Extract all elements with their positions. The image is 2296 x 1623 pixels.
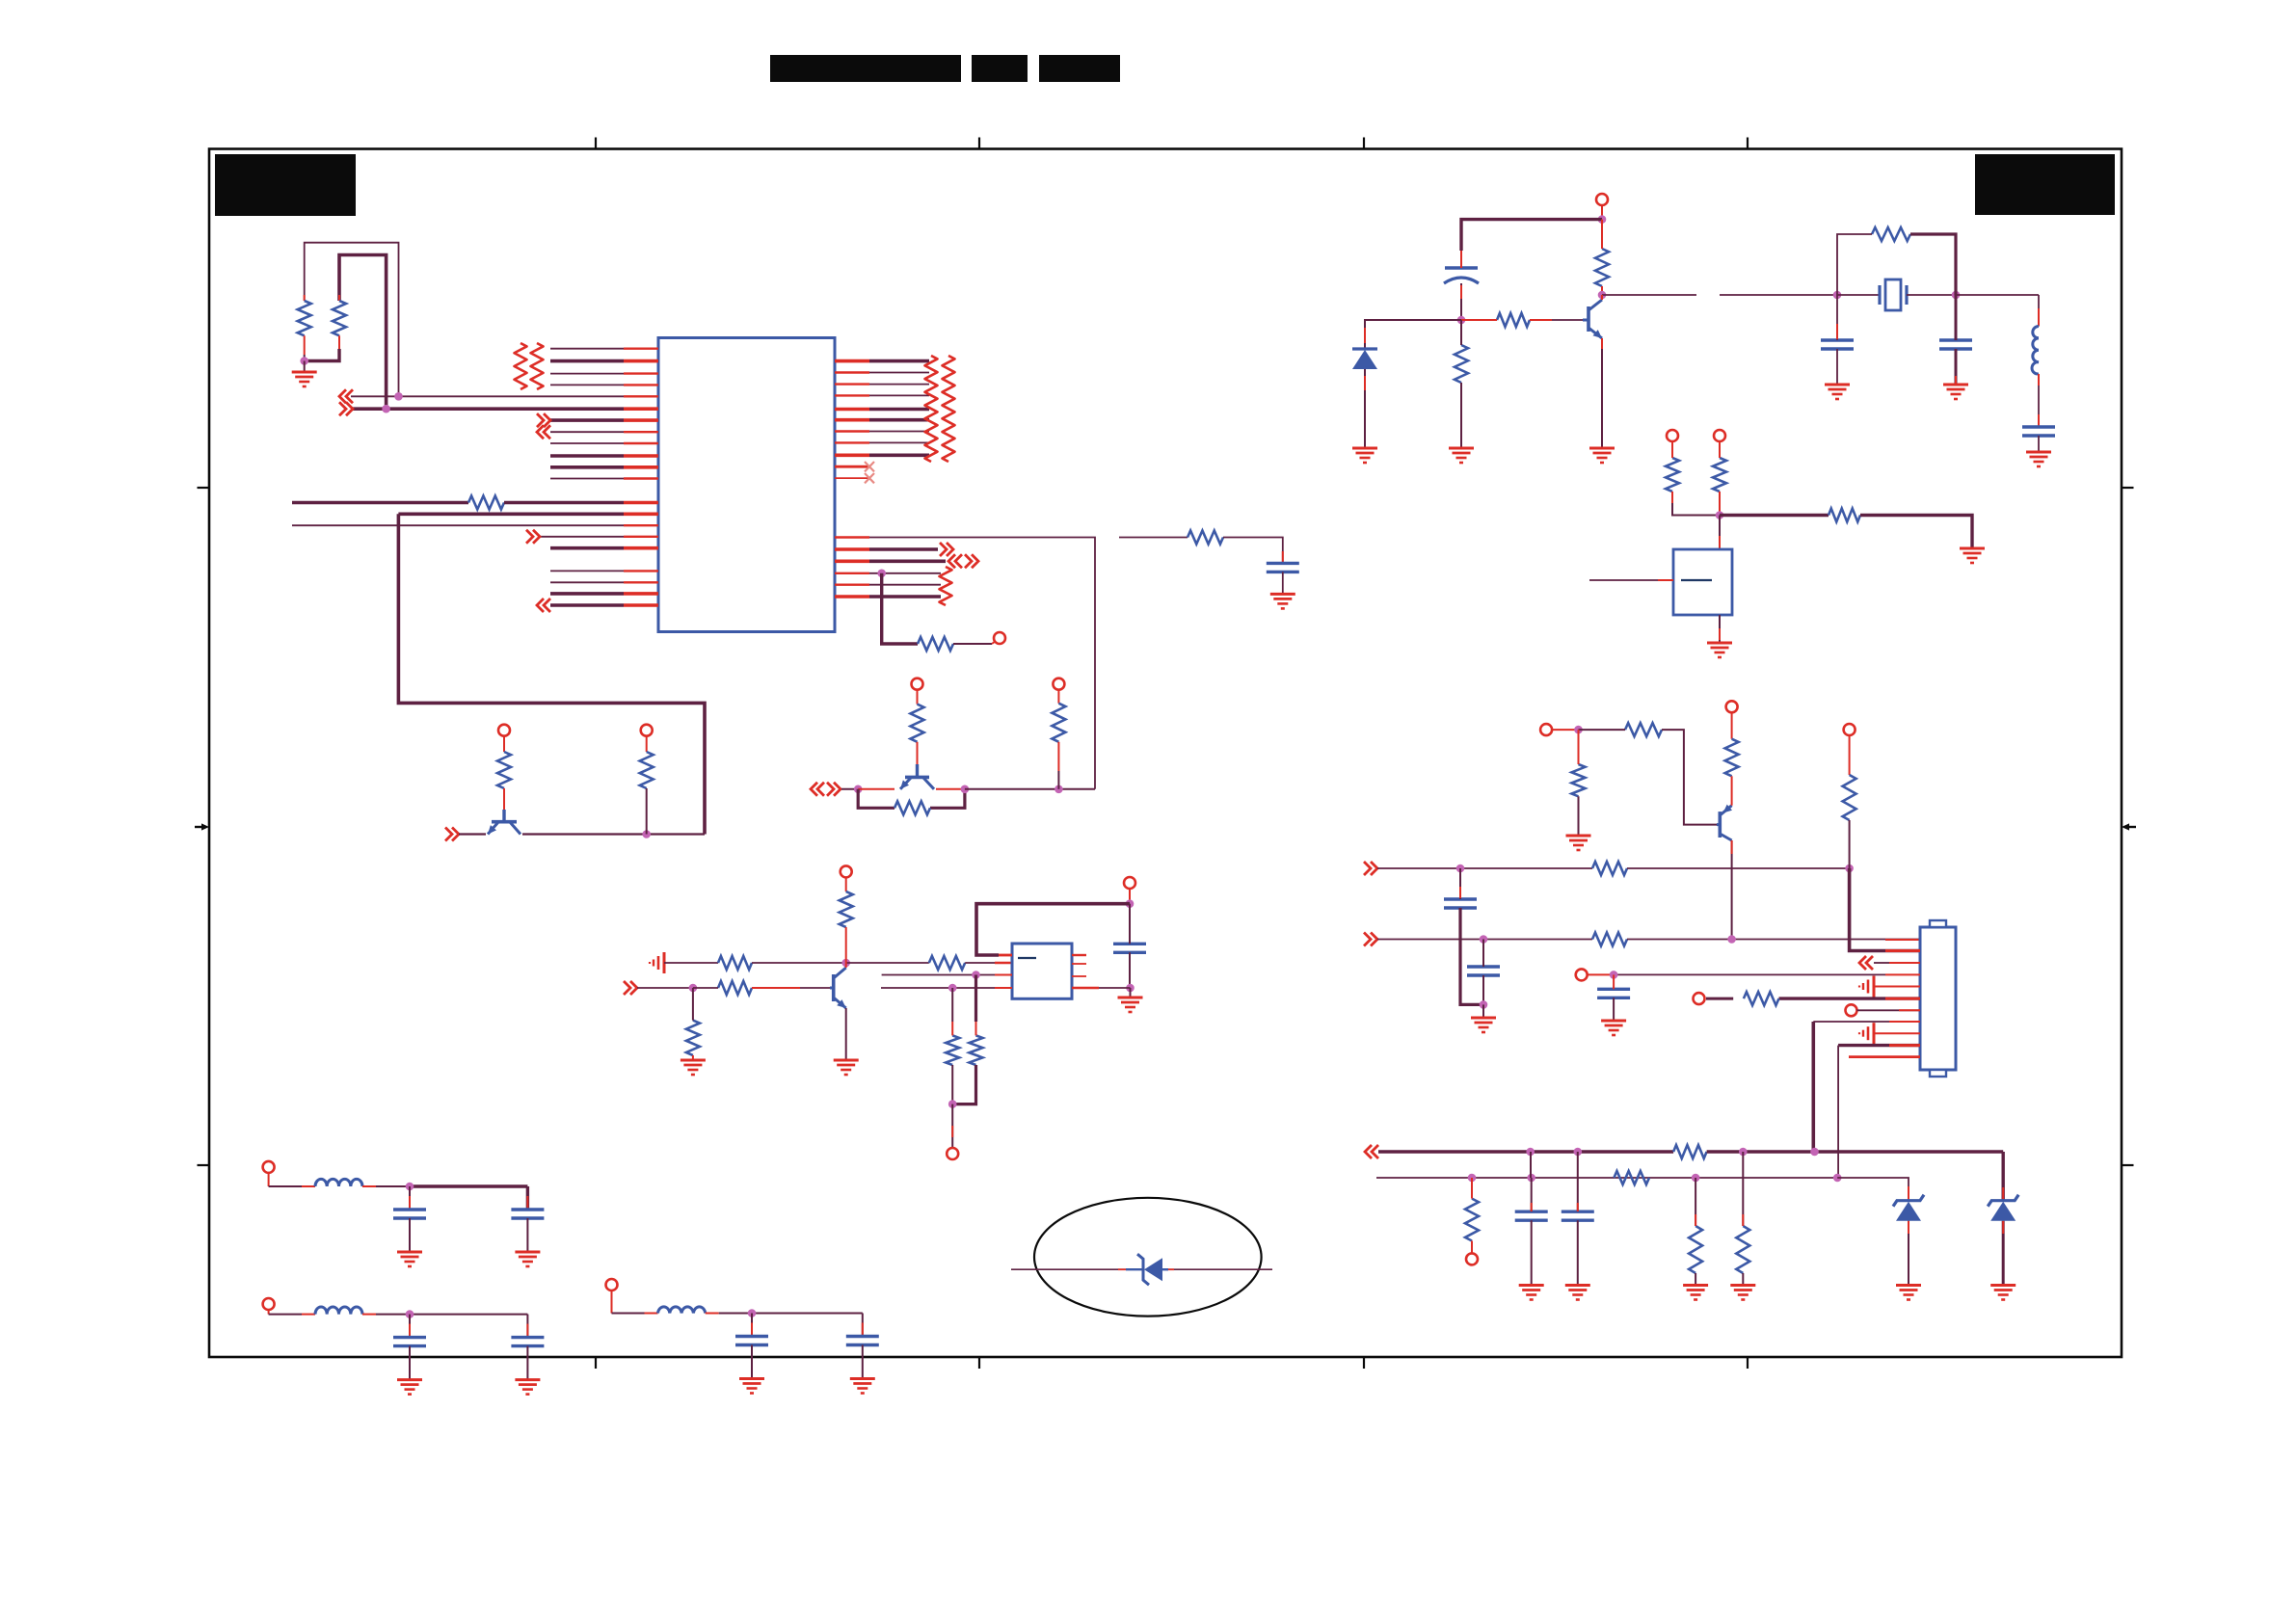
wire zener D5 top — [2001, 1152, 2004, 1200]
wire vcc loop — [1461, 220, 1602, 251]
wire U2 pin3 line — [882, 974, 976, 976]
capacitor C10 — [1562, 1210, 1594, 1212]
wire line1 b — [1627, 867, 1850, 869]
wire R24 — [1578, 730, 1580, 764]
connector J1 body — [1920, 927, 1956, 1070]
transistor Q3 — [832, 974, 836, 1001]
wire R31 — [1471, 1178, 1473, 1199]
chevron line1 — [1364, 862, 1371, 875]
bypass loop — [858, 789, 894, 809]
nc pin 10 — [835, 466, 869, 468]
capacitor C8 — [1597, 988, 1630, 991]
capacitor C11 — [1267, 562, 1299, 565]
wire T7 down — [1129, 889, 1131, 904]
ground G2 — [681, 1059, 706, 1062]
wire C9 — [1531, 1178, 1533, 1211]
wire bline1 — [1378, 1150, 1673, 1153]
node Q4 base net — [1457, 316, 1466, 325]
wire pin10 elbow — [1837, 1046, 1839, 1178]
wire thin loop pin5 — [305, 243, 399, 397]
ground G1 — [292, 371, 317, 374]
LC filter F3 — [606, 1279, 618, 1290]
ground G20 — [1896, 1284, 1921, 1287]
wire Q4 emitter — [1601, 338, 1603, 447]
ground G11 — [1960, 547, 1985, 550]
wire bline2 — [1376, 1177, 1837, 1179]
wire T9 down — [1601, 205, 1603, 220]
wire thick loop pin6 — [339, 255, 387, 410]
wire C4 — [1955, 295, 1958, 340]
wire T6-R13 — [845, 877, 847, 891]
resistor R16 collector — [1595, 249, 1609, 286]
right alignment arrow — [2127, 826, 2136, 828]
zener D6 — [1137, 1254, 1149, 1285]
chevron pair Q2 in — [811, 783, 817, 796]
IC U2 right stubs — [1072, 954, 1086, 956]
wire C11-gnd — [1282, 572, 1284, 593]
inductor L1 — [2032, 327, 2039, 375]
LC filter F2 — [263, 1298, 275, 1310]
node Q2 right — [1055, 785, 1063, 794]
ground G6 — [1352, 447, 1377, 450]
resistor R18 shunt — [1455, 345, 1468, 383]
wire R8-node — [1057, 742, 1059, 771]
wire D1 down — [1364, 369, 1366, 447]
IC U2 body — [1012, 944, 1072, 998]
capacitor C6 — [1444, 897, 1477, 900]
resistor R8 — [1052, 704, 1065, 742]
resistor R11 — [718, 981, 752, 995]
wire T3-R5 — [646, 736, 648, 752]
terminal T16 — [1466, 1253, 1478, 1264]
J1 pin9 shield — [1873, 1023, 1876, 1044]
resistor R7 base — [911, 705, 924, 742]
wire T14-node — [1588, 973, 1614, 975]
wire RC branch — [1119, 537, 1188, 539]
node Q4 collector — [1598, 291, 1607, 300]
resistor R28 — [1744, 992, 1779, 1005]
wire base path — [1579, 729, 1626, 731]
node b2d — [1833, 1174, 1842, 1183]
wire R34-line1 — [1849, 820, 1851, 868]
ground G5 — [1589, 447, 1615, 450]
wire pullup out — [1720, 514, 1829, 517]
off-page chevron pin5 — [339, 389, 346, 403]
wire diode branch — [1365, 320, 1461, 349]
node R14R15 — [948, 1100, 957, 1108]
wire R14 leads — [951, 988, 953, 1022]
J1 pin10 wire — [1838, 1044, 1920, 1047]
wire C8 — [1613, 974, 1615, 989]
terminal T2 — [498, 725, 510, 736]
wire C2 bottom — [1460, 283, 1462, 320]
J1 pin6 wire — [1706, 998, 1733, 1000]
wire bline2 b — [1837, 1178, 1909, 1186]
node b2a — [1468, 1174, 1477, 1183]
capacitor C2 pol — [1445, 266, 1478, 269]
ground G18 — [1683, 1284, 1708, 1287]
wire R13-node — [845, 927, 847, 963]
ground G9 — [1943, 384, 1968, 386]
wire U2 pin5 out — [1072, 987, 1099, 989]
wire R7-Q2 — [917, 742, 919, 764]
title bar 2 — [972, 55, 1028, 82]
terminal T9 — [1596, 194, 1608, 205]
wire Q2 collector — [936, 788, 965, 790]
resistor R1 — [304, 295, 306, 301]
wire D5 down — [2002, 1221, 2005, 1284]
wire to ground — [1130, 988, 1132, 997]
resistor R12 divider — [686, 1021, 700, 1055]
capacitor C3 — [1821, 338, 1854, 341]
resistor R5 — [640, 752, 654, 788]
LC filter F1 — [263, 1161, 275, 1173]
ground G4 — [1118, 997, 1143, 999]
wire lineB left — [637, 987, 693, 989]
node C1 out — [1126, 984, 1135, 993]
wire Q1 emitter line — [459, 833, 486, 835]
wire Q3 collector up — [845, 963, 847, 968]
resistor R30 line2 — [1614, 1171, 1649, 1184]
terminal T11 — [1714, 430, 1725, 441]
wire Q1 collector line — [522, 833, 647, 835]
wire lineA to U2 — [965, 962, 995, 964]
wire R2 to ground node — [305, 349, 339, 361]
wire tie line1-line2 — [1530, 1152, 1532, 1178]
terminal T6 — [841, 865, 852, 877]
wire R5-node — [646, 788, 648, 835]
ground G13 — [1566, 835, 1591, 838]
ground G21 — [1990, 1284, 2016, 1287]
node Q2 left — [854, 785, 863, 794]
node X right — [1952, 291, 1961, 300]
wire L1-C5 — [2038, 374, 2040, 427]
resistor R23 base — [1625, 723, 1662, 736]
resistor R15 — [970, 1035, 983, 1065]
node line2 Q5 — [1727, 935, 1736, 944]
wire base — [1461, 319, 1497, 321]
node divider A — [972, 971, 980, 979]
wire T12-node — [1552, 729, 1578, 731]
transistor Q4 — [1587, 306, 1590, 332]
title bar 3 — [1039, 55, 1120, 82]
wire T4-R7 — [917, 690, 919, 705]
wire Q5 collector — [1731, 840, 1733, 940]
wire pin8 elbow — [1812, 1022, 1816, 1152]
wire to ground — [304, 361, 306, 372]
wire Q3 emitter down — [845, 1008, 847, 1059]
off-page squiggle right A — [925, 356, 938, 462]
ground G14 — [1471, 1017, 1496, 1020]
wire loop Q1 — [398, 514, 705, 834]
J1 pin8 wire — [1813, 1021, 1920, 1023]
wire lineA mid — [752, 962, 846, 964]
wire C7 — [1482, 940, 1484, 968]
wire to inductor — [1956, 294, 2039, 296]
resistor R14 — [946, 1035, 959, 1065]
IC U1 right pins upper — [835, 359, 869, 363]
wire Q2 emitter — [858, 788, 894, 790]
node b2b — [1527, 1174, 1535, 1183]
J1 pin1 wire stub — [1885, 949, 1920, 952]
node base net — [1574, 726, 1583, 734]
capacitor C9 — [1515, 1210, 1548, 1212]
node Q3 collector — [841, 959, 850, 968]
wire pin15 down — [882, 573, 918, 644]
node line1 cap — [1456, 865, 1465, 873]
terminal T17 — [1844, 724, 1855, 735]
ground G17 — [1565, 1284, 1590, 1287]
wire xtal left — [1720, 294, 1837, 296]
wire caps-gnd — [1482, 1004, 1484, 1017]
wire lineA right — [846, 962, 929, 964]
transistor Q1 — [502, 810, 505, 822]
IC U3 body — [1673, 549, 1732, 615]
wire pin12 long — [835, 538, 1095, 789]
IC U2 pin1 mark — [1018, 957, 1036, 959]
black label box top-right — [1975, 154, 2115, 215]
capacitor C7 — [1467, 965, 1500, 968]
wire R33 — [1742, 1152, 1744, 1226]
node b1d — [1810, 1148, 1819, 1157]
capacitor C5 — [2022, 425, 2055, 428]
terminal T14 — [1576, 969, 1588, 980]
node line2 cap — [1480, 935, 1488, 944]
wire C1 bottom — [1129, 952, 1131, 988]
node X left — [1833, 291, 1842, 300]
wire U3 gnd — [1719, 615, 1721, 642]
resistor R26 line1 — [1592, 862, 1627, 875]
node Q2 out — [961, 785, 970, 794]
resistor R3 — [918, 637, 953, 651]
wire Q2 out — [965, 788, 1059, 790]
wire zener D4 top — [1908, 1186, 1909, 1200]
node base divider — [689, 984, 698, 993]
ground G15 — [1601, 1020, 1626, 1023]
chevron line2 — [1364, 933, 1371, 946]
IC U3 pin mark — [1681, 579, 1712, 581]
node pin6 dot — [382, 405, 390, 413]
wire R19 loop — [1837, 234, 1872, 295]
black label box top-left — [215, 154, 356, 216]
wire R18 leads — [1460, 320, 1462, 345]
node caps — [1480, 1000, 1488, 1009]
node pullup — [1716, 511, 1724, 519]
ground G8 — [1825, 384, 1850, 386]
wire ellipse — [1011, 1268, 1126, 1270]
wire R32 — [1695, 1178, 1696, 1226]
resistor R10 — [929, 956, 965, 970]
wire bline1 b — [1707, 1150, 2004, 1153]
ground G10 — [2026, 451, 2051, 454]
node b1a — [1526, 1148, 1535, 1157]
resistor R34 — [1843, 775, 1856, 820]
off-page squiggle left B — [531, 343, 544, 389]
wire X right-plate — [1907, 294, 1956, 296]
terminal T12 — [1540, 724, 1552, 735]
resistor R22 — [1829, 509, 1860, 522]
IC U1 right pins lower — [835, 547, 869, 551]
J1 pin11 stub — [1849, 1055, 1920, 1058]
terminal T15 — [1694, 993, 1705, 1004]
wire line1 — [1377, 867, 1592, 869]
terminal T7 — [1124, 877, 1135, 889]
wire C2 top — [1460, 251, 1462, 268]
chevron pair pin14 — [948, 554, 955, 568]
resistor R29 line1 — [1673, 1145, 1707, 1158]
wire R16 leads — [1601, 220, 1603, 249]
wire T13-R25 — [1731, 712, 1733, 738]
resistor R31 — [1465, 1199, 1479, 1241]
ground G22 — [1270, 593, 1295, 596]
ground G19 — [1730, 1284, 1755, 1287]
left alignment arrow — [195, 826, 203, 828]
resistor R20 — [1666, 458, 1679, 492]
resistor R4 — [497, 752, 511, 788]
wire C6 — [1459, 868, 1461, 899]
node b1c — [1739, 1148, 1748, 1157]
node pin15 — [877, 570, 886, 578]
IC U1 left pins — [550, 348, 624, 350]
wire to T8 — [951, 1104, 953, 1148]
wire D4 down — [1908, 1221, 1909, 1284]
off-page squiggle left A — [515, 343, 527, 389]
shield symbol line A — [663, 952, 666, 973]
resistor R25 emitter — [1725, 739, 1739, 777]
wire R4-Q1 — [503, 788, 505, 810]
off-page chevron pin6 — [339, 402, 346, 415]
wire line2 b — [1627, 939, 1920, 941]
terminal T10 — [1667, 430, 1678, 441]
ellipse outline — [1034, 1198, 1262, 1317]
capacitor C4 — [1939, 338, 1972, 341]
off-page squiggle right C — [940, 567, 952, 605]
J1 pin5 shield — [1873, 976, 1876, 998]
wire T17-R34 — [1849, 735, 1851, 775]
frame ticks — [595, 138, 597, 149]
IC U1 body — [658, 338, 835, 632]
wire lineB mid — [693, 987, 718, 989]
chevron Q1 in — [445, 828, 452, 841]
title bar 1 — [770, 55, 961, 82]
transistor Q5 pnp — [1719, 811, 1722, 838]
wire U2 pin4 line — [881, 987, 952, 989]
node b2c — [1692, 1174, 1700, 1183]
wire C5-gnd — [2038, 436, 2040, 451]
chevron pin13 — [940, 543, 947, 556]
node pin5 dot — [394, 392, 403, 401]
wire R20 — [1671, 441, 1673, 458]
ground G7 — [1449, 447, 1474, 450]
terminal T1 — [994, 632, 1005, 644]
J1 pin4 wire — [1614, 973, 1885, 975]
resistor R33 — [1736, 1226, 1749, 1273]
terminal T13 — [1726, 701, 1738, 712]
node Q1 out — [642, 830, 651, 838]
ground G12 — [1707, 642, 1732, 645]
wire T5-R8 — [1057, 690, 1059, 704]
wire Q2 in — [841, 788, 858, 790]
wire R22-gnd — [1860, 516, 1972, 548]
wire R35-C11 — [1223, 538, 1283, 564]
resistor R9 — [718, 956, 752, 970]
terminal T8 — [947, 1148, 958, 1159]
wire R15 leads — [974, 975, 977, 1023]
terminal T3 — [641, 725, 653, 736]
wire R12 — [692, 988, 694, 1021]
wire C1 top — [1129, 904, 1131, 945]
node divider B — [948, 984, 957, 993]
wire line2 — [1377, 939, 1592, 941]
resistor R35 — [1188, 531, 1223, 545]
wire collector out — [1602, 294, 1696, 296]
junction ground node — [300, 357, 308, 365]
terminal T5 — [1053, 678, 1064, 690]
resistor R27 line2 — [1592, 933, 1627, 946]
chevron Q3 base — [624, 981, 630, 995]
diode D1 — [1352, 347, 1377, 350]
node b1b — [1574, 1148, 1583, 1157]
crystal Y1 — [1878, 285, 1881, 305]
transistor Q2 — [916, 764, 919, 777]
resistor R6 bypass — [894, 801, 930, 814]
wire U3 input — [1589, 579, 1658, 581]
resistor R2 — [338, 295, 340, 301]
resistor R21 — [1713, 458, 1726, 492]
terminal T4 — [912, 678, 923, 690]
J1 pin7 terminal — [1846, 1004, 1857, 1016]
wire X left-plate — [1837, 294, 1880, 296]
wire T2-R4 — [503, 736, 505, 752]
ground G3 — [834, 1059, 859, 1062]
wire Q4 collector stub — [1601, 295, 1603, 300]
off-page squiggle right B — [943, 356, 955, 462]
wire R21 — [1719, 441, 1721, 458]
node U2 vcc — [1126, 899, 1135, 908]
ground G16 — [1519, 1284, 1544, 1287]
node Q4 vcc — [1598, 215, 1607, 224]
wire lineA left — [664, 962, 718, 964]
wire C10 — [1577, 1152, 1579, 1211]
chevron bline1 — [1365, 1145, 1372, 1158]
resistor R13 pullup — [840, 891, 853, 927]
resistor R32 — [1689, 1226, 1702, 1273]
wire R25-Q5 — [1731, 776, 1733, 805]
wire U2 vcc loop — [976, 904, 1130, 955]
node line1 end — [1845, 865, 1854, 873]
J1 pin3 chevron — [1859, 956, 1866, 970]
wire C3 — [1836, 295, 1838, 340]
resistor R24 divider — [1572, 764, 1586, 796]
wire U3 vcc — [1719, 516, 1721, 537]
nc pin 11 — [835, 477, 869, 479]
wire to terminal — [953, 643, 992, 645]
node C8 — [1610, 971, 1618, 979]
resistor R19 xtal — [1872, 227, 1910, 241]
zener D5 — [1988, 1195, 2018, 1207]
resistor R17 base — [1497, 313, 1530, 327]
capacitor C1 — [1113, 943, 1146, 945]
border frame — [209, 149, 2122, 1358]
wire pin2 elbow — [1850, 868, 1920, 951]
zener D4 — [1893, 1195, 1924, 1207]
